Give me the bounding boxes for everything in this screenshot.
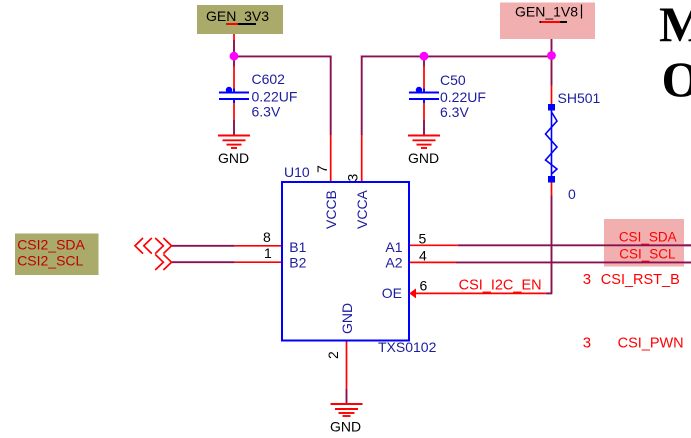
svg-text:VCCB: VCCB	[323, 190, 339, 229]
svg-text:CSI_RST_B: CSI_RST_B	[601, 272, 680, 288]
svg-text:2: 2	[325, 351, 341, 359]
svg-text:3: 3	[583, 335, 591, 352]
svg-text:A2: A2	[385, 255, 402, 271]
svg-text:SH501: SH501	[558, 90, 601, 106]
svg-text:TXS0102: TXS0102	[378, 339, 437, 355]
svg-text:M: M	[659, 0, 691, 52]
svg-text:C50: C50	[440, 72, 466, 88]
svg-text:CSI2_SDA: CSI2_SDA	[17, 237, 85, 253]
svg-text:5: 5	[419, 231, 427, 247]
svg-text:3: 3	[345, 174, 361, 182]
svg-text:GEN_1V8: GEN_1V8	[515, 4, 578, 20]
svg-text:1: 1	[264, 245, 272, 261]
svg-text:6.3V: 6.3V	[440, 104, 469, 120]
svg-text:4: 4	[419, 248, 427, 264]
svg-text:GND: GND	[408, 150, 439, 166]
svg-text:6.3V: 6.3V	[252, 104, 281, 120]
svg-text:GND: GND	[218, 150, 249, 166]
svg-text:CSI_SDA: CSI_SDA	[619, 230, 677, 245]
svg-text:O: O	[662, 51, 691, 107]
svg-text:OE: OE	[382, 285, 402, 301]
svg-text:CSI_SCL: CSI_SCL	[619, 247, 676, 262]
svg-text:A1: A1	[385, 239, 402, 255]
svg-text:GND: GND	[339, 303, 355, 334]
svg-text:0.22UF: 0.22UF	[440, 89, 486, 105]
svg-text:CSI_I2C_EN: CSI_I2C_EN	[459, 278, 542, 294]
svg-text:7: 7	[314, 165, 330, 173]
svg-text:B2: B2	[289, 255, 306, 271]
svg-text:CSI2_SCL: CSI2_SCL	[17, 253, 83, 269]
svg-text:GEN_3V3: GEN_3V3	[206, 8, 269, 24]
svg-text:VCCA: VCCA	[354, 189, 370, 229]
svg-text:C602: C602	[252, 71, 286, 87]
svg-text:B1: B1	[289, 239, 306, 255]
svg-text:3: 3	[583, 271, 591, 288]
svg-text:0: 0	[568, 186, 576, 202]
svg-text:6: 6	[420, 278, 428, 294]
svg-text:GND: GND	[330, 419, 361, 435]
svg-text:U10: U10	[284, 164, 310, 180]
svg-text:0.22UF: 0.22UF	[252, 89, 298, 105]
svg-text:8: 8	[263, 229, 271, 245]
svg-text:CSI_PWN: CSI_PWN	[618, 336, 684, 352]
